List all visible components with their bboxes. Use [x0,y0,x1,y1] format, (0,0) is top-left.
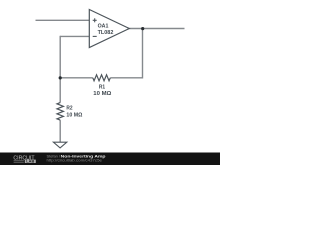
wire: node A to R1 left lead [60,77,93,79]
op-amp U1 triangle [89,10,129,48]
wire: inverting input horizontal segment [60,35,89,37]
node A junction dot [59,76,62,79]
output node junction dot [141,27,144,30]
svg-text:R1: R1 [99,85,105,91]
resistor R1 zigzag [93,75,111,81]
op-amp minus input symbol [93,35,97,37]
ground [53,142,66,148]
wire: feedback vertical segment (inverting input down to node A) [59,36,61,103]
wire: R2 bottom to ground [59,120,61,142]
svg-text:10 MΩ: 10 MΩ [93,91,112,97]
op-amp plus input symbol [93,18,97,22]
svg-text:OA1: OA1 [98,23,110,29]
footer watermark bar [0,153,220,166]
wire: output down to R1 right lead [110,29,142,78]
svg-text:TL082: TL082 [98,30,114,36]
svg-text:R2: R2 [66,106,72,112]
wire: non-inverting input wire [36,19,90,21]
svg-text:10 MΩ: 10 MΩ [66,113,83,119]
svg-text:LAB: LAB [26,160,35,164]
resistor R2 zigzag [57,103,63,121]
svg-text:http://circuitlab.com/c437c5e: http://circuitlab.com/c437c5e [47,158,103,163]
wire: op-amp output wire [129,28,184,30]
